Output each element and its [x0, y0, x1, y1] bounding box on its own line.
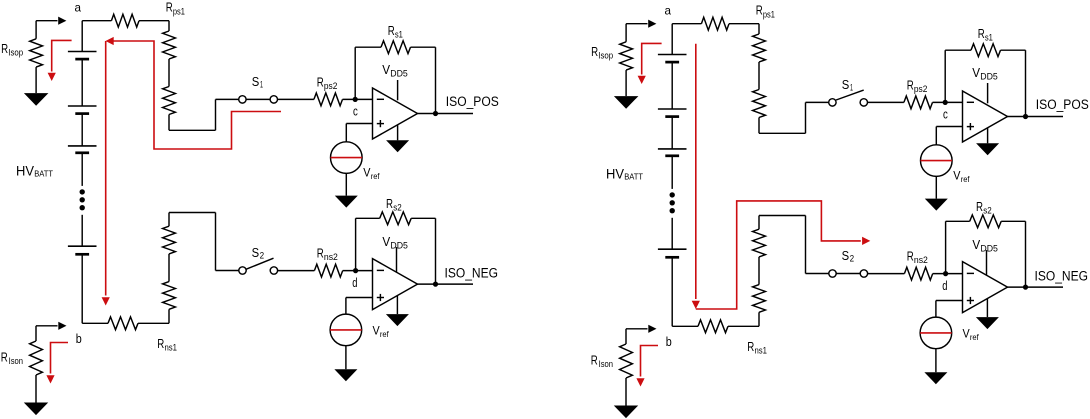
svg-text:V: V [972, 237, 980, 252]
svg-text:ISO_NEG: ISO_NEG [445, 266, 499, 281]
svg-text:R: R [386, 196, 393, 211]
svg-text:R: R [591, 44, 598, 59]
svg-text:ref: ref [371, 171, 380, 181]
svg-text:R: R [317, 245, 324, 260]
svg-text:S: S [842, 77, 850, 92]
svg-text:HV: HV [606, 166, 625, 182]
svg-text:BATT: BATT [624, 172, 643, 182]
svg-text:S: S [252, 245, 260, 260]
svg-text:ns1: ns1 [165, 342, 178, 352]
svg-text:S: S [842, 248, 850, 263]
svg-text:ISO_POS: ISO_POS [1036, 97, 1089, 112]
svg-text:DD5: DD5 [390, 240, 408, 250]
svg-text:R: R [907, 77, 914, 92]
svg-text:R: R [756, 3, 763, 18]
svg-text:V: V [363, 166, 370, 180]
svg-text:V: V [373, 324, 380, 338]
svg-text:a: a [75, 1, 82, 15]
svg-text:ps1: ps1 [173, 6, 185, 16]
svg-text:R: R [166, 0, 173, 15]
svg-text:a: a [665, 4, 672, 18]
svg-text:R: R [747, 339, 754, 354]
svg-text:V: V [382, 234, 390, 249]
svg-text:2: 2 [850, 254, 855, 264]
svg-text:DD5: DD5 [390, 68, 408, 78]
svg-text:V: V [972, 65, 980, 80]
svg-text:Ison: Ison [9, 356, 23, 366]
svg-text:ISO_NEG: ISO_NEG [1035, 269, 1089, 284]
svg-text:c: c [353, 104, 358, 118]
svg-text:2: 2 [260, 251, 265, 261]
svg-text:Ison: Ison [599, 359, 613, 369]
svg-text:ps2: ps2 [914, 84, 928, 94]
svg-text:V: V [382, 62, 390, 77]
svg-text:d: d [352, 276, 357, 290]
svg-text:V: V [963, 327, 970, 341]
svg-text:ns2: ns2 [914, 255, 928, 265]
svg-text:1: 1 [850, 83, 853, 93]
svg-text:DD5: DD5 [980, 71, 998, 81]
svg-text:R: R [1, 350, 8, 365]
svg-text:1: 1 [260, 80, 263, 90]
svg-text:R: R [388, 23, 395, 38]
svg-text:d: d [942, 279, 947, 293]
svg-text:R: R [976, 199, 983, 214]
svg-text:R: R [1, 41, 8, 56]
svg-text:b: b [76, 332, 82, 346]
svg-text:HV: HV [16, 163, 35, 179]
svg-text:ref: ref [961, 174, 970, 184]
svg-text:Isop: Isop [8, 47, 23, 57]
svg-text:b: b [666, 335, 672, 349]
svg-text:c: c [943, 107, 948, 121]
svg-text:R: R [157, 336, 164, 351]
svg-text:ref: ref [380, 329, 389, 339]
svg-text:DD5: DD5 [980, 243, 998, 253]
svg-text:Isop: Isop [598, 50, 613, 60]
svg-text:ISO_POS: ISO_POS [446, 94, 499, 109]
svg-text:R: R [907, 248, 914, 263]
svg-text:R: R [978, 26, 985, 41]
svg-text:s1: s1 [395, 29, 403, 39]
svg-text:ns2: ns2 [324, 252, 338, 262]
svg-text:s2: s2 [983, 206, 992, 216]
svg-text:s1: s1 [985, 32, 993, 42]
svg-text:ref: ref [970, 332, 979, 342]
svg-text:ps2: ps2 [324, 81, 338, 91]
svg-text:s2: s2 [393, 203, 402, 213]
svg-text:R: R [591, 353, 598, 368]
svg-text:S: S [252, 74, 260, 89]
svg-text:BATT: BATT [34, 169, 53, 179]
svg-text:ps1: ps1 [763, 9, 775, 19]
svg-text:R: R [317, 74, 324, 89]
svg-text:ns1: ns1 [755, 345, 768, 355]
svg-text:V: V [953, 169, 960, 183]
